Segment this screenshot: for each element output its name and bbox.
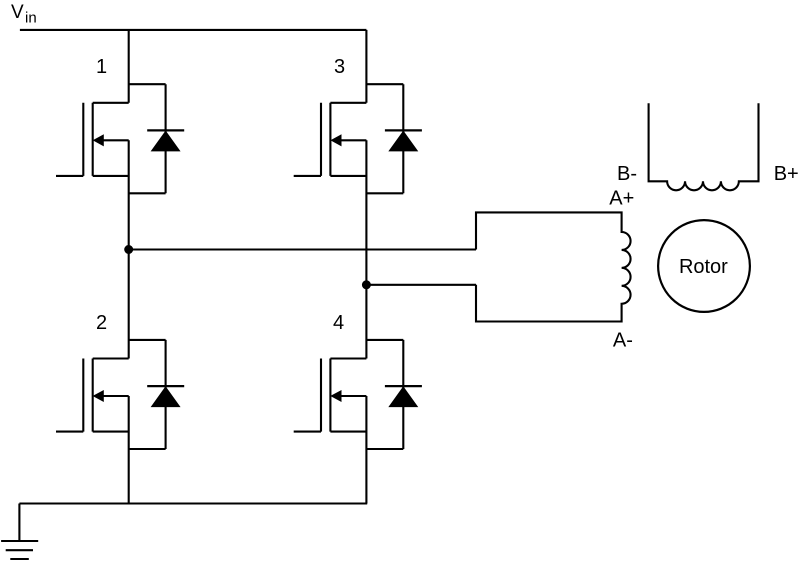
svg-text:A-: A- <box>613 330 633 352</box>
svg-text:1: 1 <box>96 56 107 78</box>
svg-text:in: in <box>25 10 37 27</box>
svg-text:A+: A+ <box>609 188 634 210</box>
svg-text:3: 3 <box>334 56 345 78</box>
svg-text:2: 2 <box>96 312 107 334</box>
svg-text:B+: B+ <box>774 163 799 185</box>
svg-text:Rotor: Rotor <box>679 256 728 278</box>
svg-text:4: 4 <box>333 312 344 334</box>
svg-text:V: V <box>11 2 24 23</box>
svg-text:B-: B- <box>617 163 637 185</box>
